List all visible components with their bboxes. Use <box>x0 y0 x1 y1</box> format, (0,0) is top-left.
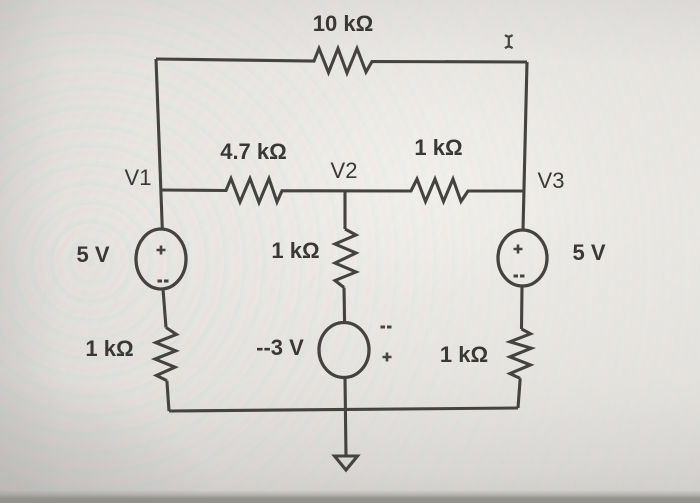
voltage source 5V right <box>498 230 547 286</box>
svg-text:5 V: 5 V <box>76 242 109 267</box>
wire right between source and resistor <box>520 286 524 329</box>
svg-text:--3 V: --3 V <box>256 335 304 360</box>
svg-text:5 V: 5 V <box>572 240 605 265</box>
svg-text:10 kΩ: 10 kΩ <box>313 11 373 36</box>
wire right vertical upper <box>523 62 527 230</box>
wire middle horizontal with resistor 4.7k and resistor 1k <box>161 179 524 203</box>
svg-text:4.7 kΩ: 4.7 kΩ <box>220 139 287 164</box>
ground arrow head <box>335 456 358 470</box>
svg-text:1 kΩ: 1 kΩ <box>414 135 462 160</box>
resistor 1k left vertical <box>155 328 177 381</box>
plus sign right of middle source <box>383 353 392 362</box>
svg-text:1 kΩ: 1 kΩ <box>271 238 319 263</box>
svg-text:1 kΩ: 1 kΩ <box>440 342 488 367</box>
wire left lower to corner <box>167 381 169 411</box>
wire left vertical upper <box>156 59 162 229</box>
wire bottom horizontal <box>169 408 518 411</box>
wire left between source and resistor <box>163 289 166 328</box>
svg-text:V2: V2 <box>331 158 358 183</box>
plus sign inside right source <box>514 245 523 254</box>
svg-text:V3: V3 <box>538 168 565 193</box>
wire middle vertical upper <box>343 192 346 229</box>
wire top with resistor 10k zigzag <box>156 49 527 74</box>
minus dashes inside left source <box>158 280 169 283</box>
svg-text:V1: V1 <box>125 165 152 190</box>
plus sign inside left source <box>157 246 166 255</box>
minus dashes right of middle source <box>381 326 392 329</box>
resistor 1k middle vertical <box>335 229 356 288</box>
voltage source 5V left <box>136 229 186 289</box>
voltage source -3V middle <box>319 323 369 378</box>
minus dashes inside right source <box>514 275 525 278</box>
wire right lower to corner <box>518 378 520 408</box>
text cursor I-beam <box>505 35 513 48</box>
resistor 1k right vertical <box>510 329 531 378</box>
wire middle lower through bottom wire <box>345 378 346 457</box>
wire middle between resistor and source <box>342 288 346 323</box>
svg-text:1 kΩ: 1 kΩ <box>85 336 133 361</box>
